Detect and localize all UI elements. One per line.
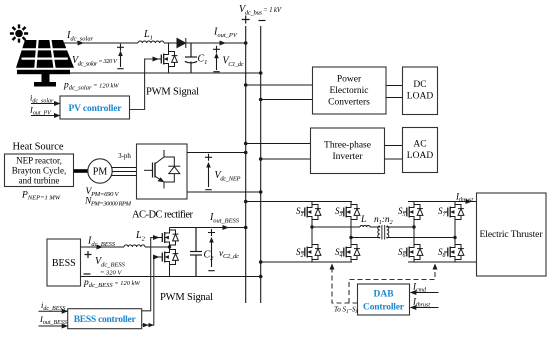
MOSFET S2: [296, 227, 321, 262]
MOSFET S7: [438, 202, 464, 238]
MOSFET S8: [438, 238, 464, 263]
AC LOAD box: [403, 128, 438, 173]
node DAB bottom rail on - bus: [259, 260, 263, 264]
svg-text:3-ph: 3-ph: [118, 152, 131, 160]
wire PV top (+) from panel to L1: [63, 42, 138, 44]
diode D_PV on top wire: [177, 38, 186, 48]
gate arrow Q_PV: [153, 57, 160, 62]
IGBT inside rectifier: [144, 150, 165, 189]
wire BESS top rail to + bus: [170, 227, 246, 229]
wire DAB right bridge bottom rail to thruster: [408, 261, 477, 263]
gate wire BESS controller to Q_B1: [142, 238, 155, 311]
node BESS return on - bus: [259, 275, 263, 279]
svg-text:AC-DC rectifier: AC-DC rectifier: [132, 210, 194, 221]
Three-phase Inverter box: [311, 128, 385, 174]
node left bridge leg B midpoint: [349, 236, 352, 239]
wire + bus to Power Electronic Converters: [246, 84, 313, 86]
svg-text:and turbine: and turbine: [19, 176, 60, 186]
svg-text:PWM Signal: PWM Signal: [146, 87, 199, 98]
DC bus minus terminal: [259, 20, 266, 22]
wire leg A midpoint to inductor L: [312, 226, 360, 228]
MOSFET Q_PV boost switch: [158, 43, 178, 73]
input i_dc_solar to PV controller: [30, 93, 61, 107]
svg-text:LOAD: LOAD: [407, 92, 434, 102]
inductor L2: [124, 245, 145, 247]
svg-text:Heat Source: Heat Source: [13, 142, 64, 153]
svg-text:Inverter: Inverter: [332, 152, 363, 162]
DC bus positive rail: [245, 26, 247, 303]
wire L2 to half-bridge midpoint: [145, 246, 170, 248]
input I_cmd to DAB controller: [410, 282, 439, 296]
dashed gate wire to right bridge: [349, 267, 435, 303]
plus minus V_dc_BESS: [84, 251, 92, 274]
svg-text:NEP reactor,: NEP reactor,: [16, 156, 62, 166]
node DAB top rail on + bus: [244, 200, 248, 204]
svg-text:= 320 V: = 320 V: [100, 270, 122, 277]
current arrow I_out_BESS: [223, 225, 230, 230]
generator PM: [88, 159, 112, 183]
sun icon: [10, 24, 28, 42]
solar panel PV array: [16, 39, 74, 87]
wire 3-phase lines PM to rectifier: [112, 168, 137, 176]
arrow to S1-S4 gates: [330, 264, 335, 270]
wire L1 to diode: [164, 42, 177, 44]
arrow to S5-S8 gates: [433, 264, 438, 270]
svg-text:L: L: [360, 215, 366, 225]
wire transformer secondary return to leg D: [387, 237, 455, 240]
wires PEC to DC LOAD: [386, 86, 403, 98]
svg-text:Converters: Converters: [328, 98, 370, 108]
dashed gate wire to left bridge: [332, 269, 358, 303]
node inverter + tap: [244, 142, 248, 146]
inductor L1: [138, 41, 164, 43]
svg-text:Brayton Cycle,: Brayton Cycle,: [12, 166, 67, 176]
current arrow I_dc_solar: [78, 41, 85, 46]
node rectifier + on bus: [244, 151, 248, 155]
svg-text:Controller: Controller: [363, 303, 405, 313]
input I_out_PV to PV controller: [29, 105, 61, 119]
gate wire from PV controller to Q_PV: [130, 59, 155, 110]
MOSFET S1: [296, 202, 321, 227]
svg-text:Electornic: Electornic: [329, 86, 368, 96]
wire PV bottom (-) from panel to - bus: [70, 72, 261, 74]
capacitor C1: [185, 43, 197, 73]
gate wire BESS controller to Q_B2: [142, 257, 155, 325]
V_dc_NEP measurement arrow: [205, 154, 212, 190]
svg-text:BESS: BESS: [52, 258, 76, 269]
Power Electronic Converters box: [313, 67, 387, 114]
svg-text:DC: DC: [413, 80, 426, 90]
svg-text:Three-phase: Three-phase: [324, 141, 371, 151]
MOSFET Q_B2 lower: [159, 247, 179, 277]
DC bus negative rail: [260, 26, 262, 303]
NEP reactor box: [5, 154, 74, 187]
wire BESS bottom rail to - bus: [81, 276, 261, 278]
node BESS out on + bus: [244, 226, 248, 230]
svg-text:LOAD: LOAD: [407, 151, 434, 161]
node PV output on + bus: [244, 41, 248, 45]
BESS controller box: [68, 309, 142, 329]
wire DAB left bridge top rail from + bus: [246, 201, 352, 203]
inductor L: [360, 225, 370, 227]
current arrow I_thrust: [466, 199, 473, 204]
current arrow I_out_PV: [220, 41, 227, 46]
diode inside rectifier: [164, 157, 180, 182]
AC-DC rectifier box: [137, 144, 188, 199]
double arrowheads on controller output: [143, 323, 154, 327]
node PEC + tap: [244, 83, 248, 87]
wire rectifier + output to + bus: [187, 152, 246, 154]
node rectifier - on bus: [259, 190, 263, 194]
svg-text:DAB: DAB: [373, 290, 394, 300]
MOSFET S3: [335, 202, 360, 238]
wire rectifier - output to - bus: [187, 191, 261, 193]
v_C2_dc measurement arrow: [208, 229, 215, 271]
svg-text:AC: AC: [413, 140, 426, 150]
node PEC - tap: [259, 98, 263, 102]
svg-text:Power: Power: [337, 75, 362, 85]
DAB Controller box: [358, 284, 410, 315]
DC LOAD box: [403, 67, 438, 115]
MOSFET S6: [398, 227, 423, 262]
wire L to transformer primary: [351, 226, 380, 238]
DC bus plus terminal: [242, 16, 250, 24]
MOSFET Q_B1 upper: [159, 228, 179, 248]
MOSFET S5: [398, 202, 423, 227]
svg-text:PM: PM: [93, 167, 108, 178]
BESS box: [47, 239, 81, 286]
wire - bus to Power Electronic Converters: [261, 99, 313, 101]
gate arrow Q_B2: [153, 255, 160, 260]
PV controller box: [60, 96, 130, 119]
svg-text:Electric Thruster: Electric Thruster: [480, 230, 544, 240]
wire BESS + output to L2: [81, 246, 125, 248]
shaft from turbine to PM: [74, 169, 89, 173]
node PV return on - bus: [259, 71, 263, 75]
wire DAB left bridge bottom rail from - bus: [261, 261, 352, 263]
node right bridge leg D midpoint: [453, 236, 456, 239]
svg-text:BESS controller: BESS controller: [74, 315, 137, 325]
node left bridge leg A midpoint: [310, 225, 313, 228]
wire DAB right bridge top rail to thruster: [408, 201, 477, 203]
node inverter - tap: [259, 157, 263, 161]
input I_thrust to DAB controller: [410, 297, 439, 311]
Electric Thruster box: [477, 193, 547, 276]
MOSFET S4: [335, 238, 360, 263]
wire + bus to Three-phase Inverter: [246, 143, 311, 145]
V_C1_dc measurement arrow: [213, 46, 220, 72]
input i_dc_BESS to BESS controller: [39, 300, 69, 314]
svg-text:PWM Signal: PWM Signal: [160, 292, 213, 303]
capacitor C2: [190, 228, 202, 277]
node BESS midpoint: [168, 245, 171, 248]
gate arrow Q_B1: [153, 235, 160, 240]
wire diode to DC bus with node: [186, 42, 246, 44]
wire transformer secondary to leg C: [387, 226, 414, 227]
current arrow I_dc_BESS: [97, 245, 104, 250]
node right bridge leg C midpoint: [412, 225, 415, 228]
input I_out_BESS to BESS controller: [39, 314, 69, 329]
wire - bus to Three-phase Inverter: [261, 158, 311, 160]
svg-text:PV controller: PV controller: [69, 104, 123, 114]
V_dc_solar measurement arrow: [117, 44, 124, 69]
wires inverter to AC LOAD: [385, 146, 403, 160]
transformer T1: [378, 225, 389, 240]
